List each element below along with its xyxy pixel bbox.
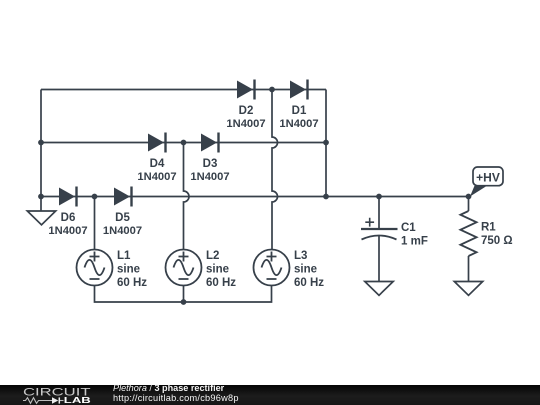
wire left vertical [40, 90, 42, 197]
diode D1 [279, 80, 318, 131]
svg-text:60 Hz: 60 Hz [117, 277, 147, 289]
svg-text:D4: D4 [150, 158, 165, 170]
wire L3 drop with hops [272, 90, 278, 250]
ground C1 [365, 282, 393, 296]
capacitor C1 [361, 218, 428, 248]
svg-text:1N4007: 1N4007 [226, 118, 265, 130]
ground left [27, 197, 55, 225]
node output rail mid [323, 194, 329, 200]
svg-text:D1: D1 [292, 105, 307, 117]
node output rail left [38, 194, 44, 200]
wire top rail [41, 89, 326, 91]
svg-text:C1: C1 [401, 222, 416, 234]
node D2-D1 [269, 87, 275, 93]
svg-text:L2: L2 [206, 250, 219, 262]
diode D6 [48, 187, 87, 238]
diode D3 [190, 133, 229, 184]
svg-text:L3: L3 [294, 250, 307, 262]
diode D4 [137, 133, 176, 184]
svg-text:sine: sine [117, 264, 140, 276]
svg-text:D5: D5 [115, 212, 130, 224]
svg-text:60 Hz: 60 Hz [206, 277, 236, 289]
svg-text:1N4007: 1N4007 [190, 171, 229, 183]
svg-text:1 mF: 1 mF [401, 236, 428, 248]
diode D5 [103, 187, 142, 238]
wire R1 top [468, 197, 470, 212]
source L3 [254, 250, 325, 290]
wire C1 bottom [378, 236, 380, 282]
svg-text:1N4007: 1N4007 [137, 171, 176, 183]
node D4-D3 [181, 140, 187, 146]
wire L1 drop [94, 197, 96, 250]
wire right vertical [325, 90, 327, 197]
ground R1 [454, 282, 482, 296]
svg-text:L1: L1 [117, 250, 131, 262]
footer text [113, 384, 239, 404]
svg-text:1N4007: 1N4007 [103, 225, 142, 237]
wire L2 bottom [183, 286, 185, 303]
node bottom bus [181, 299, 187, 305]
svg-text:R1: R1 [481, 222, 496, 234]
wire L2 drop with hop [184, 143, 190, 250]
diode D2 [226, 80, 265, 131]
svg-text:1N4007: 1N4007 [279, 118, 318, 130]
wire C1 top [378, 197, 380, 230]
node flag +HV [470, 167, 503, 197]
wire bottom bus [95, 286, 272, 303]
source L2 [166, 250, 237, 290]
svg-text:sine: sine [294, 264, 317, 276]
node C1 tap [376, 194, 382, 200]
node L1 tap [92, 194, 98, 200]
junction node dots [38, 87, 471, 305]
source L1 [77, 250, 148, 290]
resistor R1 [460, 211, 512, 256]
svg-text:D6: D6 [61, 212, 76, 224]
node second rail left [38, 140, 44, 146]
wire R1 bottom [468, 256, 470, 282]
svg-text:LAB: LAB [64, 395, 91, 405]
svg-text:+HV: +HV [476, 170, 500, 184]
svg-text:750 Ω: 750 Ω [481, 235, 513, 247]
svg-text:60 Hz: 60 Hz [294, 277, 324, 289]
svg-text:1N4007: 1N4007 [48, 225, 87, 237]
CircuitLab logo [23, 387, 91, 405]
node second rail right [323, 140, 329, 146]
footer bar [0, 385, 540, 405]
node +HV output [466, 194, 472, 200]
svg-text:D2: D2 [239, 105, 254, 117]
svg-text:D3: D3 [203, 158, 218, 170]
wire output rail [41, 196, 469, 198]
svg-text:sine: sine [206, 264, 229, 276]
wire second rail [41, 142, 326, 144]
